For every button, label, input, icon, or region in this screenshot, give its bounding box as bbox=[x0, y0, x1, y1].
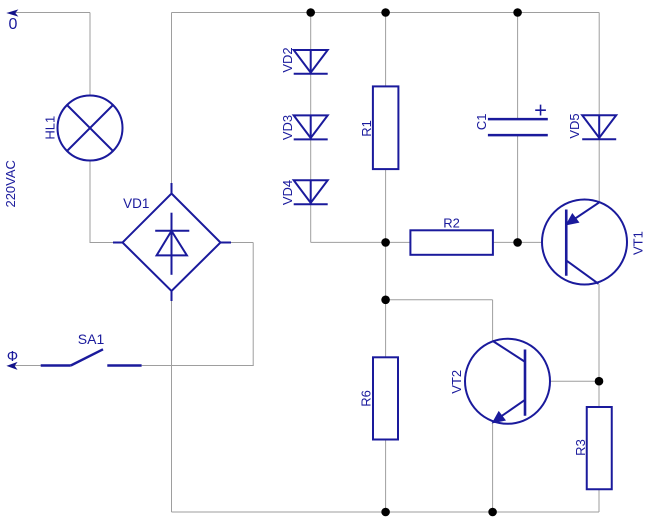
svg-text:VD2: VD2 bbox=[280, 47, 295, 72]
node A junction bbox=[381, 238, 390, 247]
svg-text:0: 0 bbox=[8, 16, 17, 33]
diode VD3 bbox=[294, 115, 328, 139]
wire bottom rail bbox=[172, 511, 600, 513]
node junction bottom rail at R6 bbox=[381, 508, 390, 517]
svg-text:SA1: SA1 bbox=[78, 331, 105, 347]
wire C1 bottom plate to node B bbox=[517, 135, 519, 242]
svg-text:VD4: VD4 bbox=[280, 180, 295, 205]
svg-text:R3: R3 bbox=[573, 439, 588, 456]
wire SA1 right to corner bbox=[142, 365, 254, 367]
svg-text:R6: R6 bbox=[359, 390, 374, 407]
terminal arrow phase bbox=[8, 363, 17, 369]
wire VD1 top pin up to rail bbox=[171, 13, 173, 184]
wire VT2 base to node C bbox=[525, 380, 599, 382]
node junction top rail at R1 bbox=[381, 8, 390, 17]
node C junction bbox=[595, 377, 604, 386]
svg-text:220VAC: 220VAC bbox=[3, 160, 18, 207]
svg-text:+: + bbox=[534, 98, 547, 123]
wire node A to R2 left bbox=[386, 241, 411, 243]
wire VT1 collector down to R3 top bbox=[598, 284, 600, 407]
node junction bottom rail at VT2 bbox=[488, 508, 497, 517]
svg-text:R1: R1 bbox=[359, 120, 374, 137]
diode VD5 bbox=[582, 115, 616, 139]
node junction top rail at C1 bbox=[513, 8, 522, 17]
svg-text:VD5: VD5 bbox=[567, 113, 582, 138]
wire HL1 bottom down bbox=[89, 161, 91, 244]
wire down to HL1 top bbox=[89, 13, 91, 96]
resistor R6 bbox=[373, 357, 398, 439]
wire VD4 down to node row bbox=[310, 204, 312, 242]
wire R3 bottom to bottom rail bbox=[598, 489, 600, 512]
wire to VD1 left pin bbox=[90, 242, 113, 244]
wire top rail bbox=[172, 12, 600, 14]
svg-text:VD1: VD1 bbox=[123, 196, 149, 211]
wire VD1 right pin to corner bbox=[231, 242, 253, 244]
wire node D to R6 top bbox=[385, 300, 387, 358]
svg-text:VT2: VT2 bbox=[449, 370, 464, 394]
wire rail to VD2 top bbox=[310, 13, 312, 51]
diode VD2 bbox=[294, 50, 328, 74]
wire rail to C1 top plate bbox=[517, 13, 519, 120]
lamp HL1 bbox=[58, 96, 123, 161]
svg-text:R2: R2 bbox=[443, 216, 460, 231]
wire VD3 to VD4 bbox=[310, 139, 312, 180]
wire corner down to SA1 row bbox=[252, 243, 254, 366]
switch SA1 bbox=[41, 349, 142, 365]
svg-text:C1: C1 bbox=[474, 113, 489, 130]
wire VD5 bottom to VT1 emitter bbox=[598, 139, 600, 202]
wire rail corner down to VD5 top bbox=[598, 13, 600, 116]
resistor R3 bbox=[587, 407, 612, 489]
wire VD1 bottom pin down to bottom rail bbox=[171, 301, 173, 512]
svg-text:VT1: VT1 bbox=[630, 231, 645, 255]
wire down to VT2 collector bbox=[492, 300, 494, 341]
capacitor C1 bbox=[488, 119, 548, 135]
wire node A down to node D bbox=[385, 242, 387, 299]
svg-text:Ф: Ф bbox=[7, 348, 18, 365]
wire R6 bottom to rail bbox=[385, 440, 387, 513]
transistor VT1 bbox=[542, 200, 627, 285]
wire R2 right to VT1 base bbox=[493, 241, 565, 243]
svg-text:HL1: HL1 bbox=[43, 116, 58, 140]
resistor R2 bbox=[410, 230, 493, 255]
node B junction bbox=[513, 238, 522, 247]
wire VD2 to VD3 bbox=[310, 74, 312, 116]
wire VT2 emitter down to rail bbox=[492, 422, 494, 513]
wire top-left horizontal from terminal 0 bbox=[10, 12, 90, 14]
node junction top rail at VD2 bbox=[306, 8, 315, 17]
transistor VT2 bbox=[465, 339, 550, 424]
wire VD4 bottom to node A bbox=[311, 241, 386, 243]
wire rail to R1 top bbox=[385, 13, 387, 87]
node D junction bbox=[381, 296, 390, 305]
wire node D to VT2 collector branch bbox=[386, 299, 493, 301]
diode VD4 bbox=[294, 180, 328, 204]
svg-text:VD3: VD3 bbox=[280, 115, 295, 140]
terminal arrow 0 bbox=[8, 10, 18, 16]
wire terminal phase to SA1 left bbox=[10, 365, 41, 367]
wire R1 bottom to node A bbox=[385, 169, 387, 242]
bridge rectifier VD1 bbox=[113, 183, 231, 301]
resistor R1 bbox=[373, 86, 399, 169]
